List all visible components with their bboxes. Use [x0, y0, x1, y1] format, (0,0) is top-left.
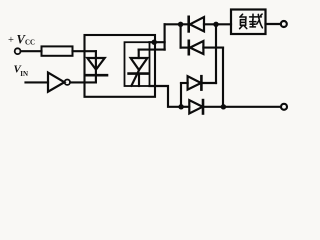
wire node B down to D3 [215, 24, 217, 83]
diode D1 [189, 17, 204, 32]
inverter U1 [48, 73, 70, 92]
photothyristor VT [129, 50, 148, 86]
junction node A [178, 22, 183, 27]
diode D3 [181, 76, 216, 89]
wire thyristor cathode to node C [150, 86, 181, 107]
wire D2 anode down to bottom rail [222, 48, 224, 107]
load box [231, 10, 266, 35]
wire load to terminal [266, 23, 281, 25]
junction node D [221, 104, 226, 109]
optocoupler box [85, 35, 156, 97]
label load (fu zai) [240, 14, 263, 29]
wire LED cathode to inverter output [70, 81, 96, 83]
LED D (opto emitter) [87, 51, 108, 82]
wire top rail [165, 23, 189, 25]
wire Vin to inverter [26, 81, 49, 83]
wire thyristor anode to top rail [139, 49, 165, 51]
svg-text:CC: CC [25, 39, 35, 46]
svg-text:IN: IN [20, 70, 28, 78]
terminal +Vcc [15, 48, 21, 54]
wire D3 anode down to node C [180, 83, 182, 107]
wire stub box edge to rail vertical [150, 41, 165, 43]
svg-text:+: + [8, 35, 14, 46]
wire node A down to D2 [180, 24, 182, 47]
resistor R [42, 46, 73, 55]
label +Vcc [8, 33, 35, 47]
junction dot on box edge [152, 40, 157, 45]
photothyristor inner box [125, 42, 150, 86]
diode D4 [181, 100, 281, 113]
label Vin [14, 64, 29, 79]
wire Vcc to resistor [21, 50, 42, 52]
junction node B [213, 22, 218, 27]
terminal AC top [281, 21, 287, 27]
wire resistor to LED anode [73, 50, 96, 52]
diode D2 [181, 41, 223, 54]
terminal AC bottom [281, 104, 287, 110]
junction node C [178, 104, 183, 109]
